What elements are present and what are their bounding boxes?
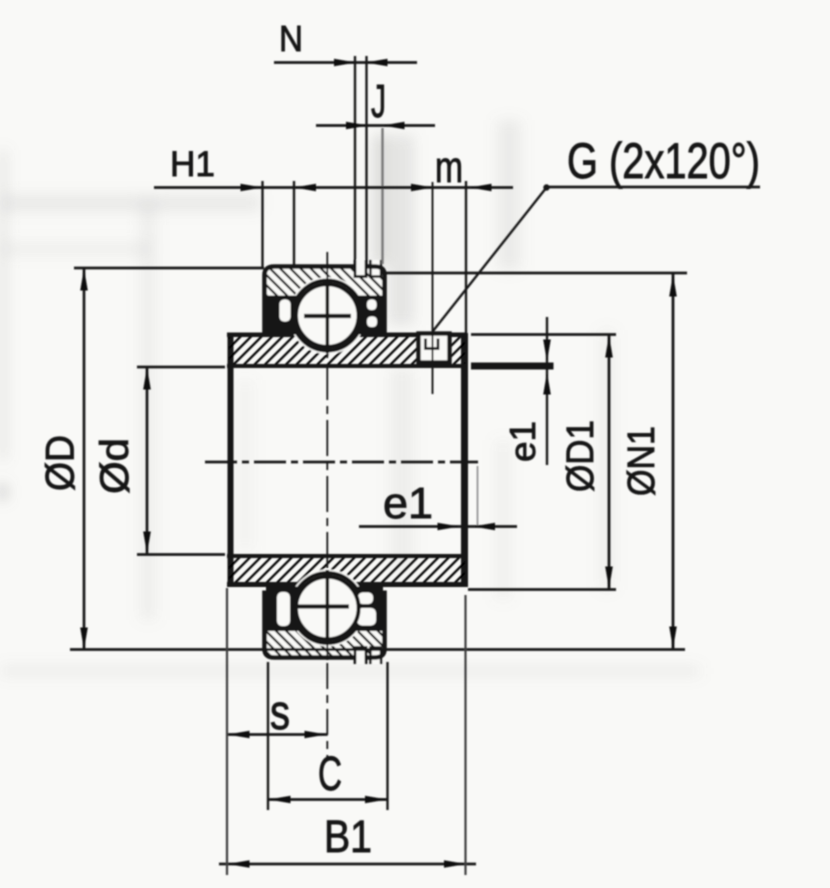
face auxiliary line: [477, 466, 479, 527]
bottom section left seal: [266, 587, 304, 632]
G leader line: [433, 188, 547, 332]
svg-text:s: s: [270, 686, 290, 740]
H1 extension line right: [293, 181, 295, 267]
svg-text:H1: H1: [170, 145, 215, 184]
B1 extension line right: [464, 595, 466, 875]
bottom ball: [296, 577, 359, 640]
outer ring top notch (J): [371, 260, 382, 277]
svg-text:e1: e1: [383, 479, 433, 528]
ØD top extension line: [74, 267, 264, 270]
outer ring top section body: [265, 267, 385, 334]
inner ring outer surface top edge: [227, 333, 467, 338]
svg-text:ØD: ØD: [39, 435, 83, 491]
ØN1 dimension line: [672, 274, 675, 649]
svg-text:G (2x120°): G (2x120°): [567, 133, 760, 189]
bottom ball race arc: [292, 573, 362, 643]
B1 extension line left: [226, 588, 228, 875]
svg-text:e1: e1: [502, 421, 543, 462]
s dimension line: [227, 733, 328, 736]
svg-text:B1: B1: [324, 811, 372, 862]
top section right seal: [352, 296, 383, 335]
top section left seal: [266, 296, 304, 335]
G label underline: [546, 186, 760, 189]
outer ring bottom section outline: [265, 591, 385, 658]
H1 extension line left: [261, 181, 263, 267]
ØD1 bottom extension line: [468, 588, 616, 591]
outer ring bottom slot (N): [355, 648, 366, 665]
e1 dimension line: [359, 525, 517, 528]
setscrew axis line: [432, 182, 434, 394]
N extension line left: [354, 56, 356, 265]
svg-text:m: m: [435, 143, 463, 192]
inner ring sleeve left face: [228, 333, 234, 587]
outer ring bottom notch: [371, 648, 382, 665]
C extension line right: [386, 662, 388, 810]
setscrew G: [419, 334, 450, 363]
outer ring top section outline: [265, 267, 385, 334]
inner ring bore top line: [227, 364, 467, 368]
vertical centreline: [326, 252, 328, 660]
svg-text:N: N: [279, 18, 303, 59]
top ball race clearance: [289, 277, 366, 354]
H1/m dimension line: [154, 186, 513, 189]
Ød top extension line: [137, 366, 225, 369]
svg-text:ØN1: ØN1: [621, 426, 663, 496]
ØD1 dimension line: [608, 335, 611, 589]
top ball: [296, 284, 359, 347]
bottom section right seal: [352, 587, 383, 632]
outer ring bottom section body: [265, 591, 385, 658]
Ød bottom extension line: [137, 553, 225, 556]
outer ring top slot (N): [355, 260, 366, 277]
N extension line right: [365, 56, 367, 265]
bottom section left seal pocket: [277, 592, 290, 626]
top ball race arc: [292, 281, 362, 351]
svg-text:C: C: [318, 748, 342, 801]
top ball crosshair: [304, 314, 351, 318]
J extension line right: [381, 128, 383, 264]
bottom ball crosshair: [291, 604, 349, 608]
C extension line left: [267, 662, 269, 810]
inner ring top band hatching: [229, 336, 465, 365]
Ød dimension line: [146, 367, 149, 554]
C dimension line: [268, 798, 388, 801]
e1 thick reference line: [471, 363, 554, 370]
dimension J line: [316, 124, 435, 127]
bottom section right seal pockets: [358, 593, 373, 605]
inner ring bottom band hatching: [229, 557, 465, 584]
inner ring bore bottom line: [227, 554, 467, 558]
e1 right dimension line: [546, 317, 548, 465]
B1 dimension line: [219, 863, 476, 866]
svg-text:J: J: [371, 75, 386, 127]
horizontal centreline: [205, 461, 478, 464]
top section left seal pocket: [280, 300, 291, 322]
ØN1 top extension line: [385, 272, 688, 275]
top section right seal pockets: [367, 300, 377, 311]
inner ring outer surface bottom edge: [227, 582, 467, 587]
ØD1 top extension line: [471, 333, 616, 336]
dimension N line: [274, 61, 417, 64]
svg-text:Ød: Ød: [93, 438, 137, 494]
svg-text:ØD1: ØD1: [560, 420, 602, 492]
m extension line right: [465, 181, 467, 333]
setscrew socket slot: [426, 339, 439, 349]
inner ring sleeve right face: [461, 333, 468, 587]
bottom ball race clearance: [289, 570, 366, 647]
ØD dimension line: [83, 268, 86, 650]
bottom extension line (ØD/ØN1): [70, 648, 685, 651]
